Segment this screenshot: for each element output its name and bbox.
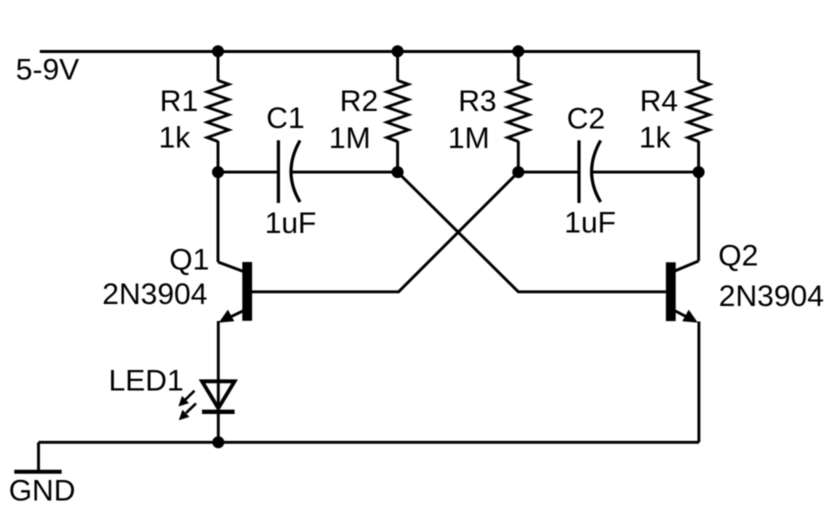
wire bottom ground rail xyxy=(39,441,700,444)
wire node A to Q1 collector xyxy=(217,172,220,262)
capacitor C1 xyxy=(278,140,300,203)
wire node A to C1 xyxy=(218,171,278,174)
svg-text:5-9V: 5-9V xyxy=(16,53,79,86)
svg-text:LED1: LED1 xyxy=(109,364,184,397)
transistor Q2 xyxy=(666,261,699,323)
junction LED1 to bottom rail xyxy=(212,436,224,448)
resistor R4 xyxy=(688,81,710,173)
ground xyxy=(14,442,61,471)
wire Q2 emitter to bottom rail xyxy=(697,322,700,443)
resistor R2 xyxy=(387,51,409,172)
resistor R3 xyxy=(507,51,529,172)
svg-text:R3: R3 xyxy=(458,85,496,118)
wire C1 to node B xyxy=(292,171,398,174)
node B R2 bottom xyxy=(392,166,404,178)
junction rail-R1 xyxy=(212,45,224,57)
LED LED1 xyxy=(178,381,234,420)
transistor Q1 xyxy=(218,262,252,323)
svg-text:C2: C2 xyxy=(567,103,605,136)
node A Q1 collector xyxy=(212,166,224,178)
wire node C to C2 xyxy=(518,171,579,174)
svg-text:1M: 1M xyxy=(329,122,371,155)
resistor R1 xyxy=(207,51,229,172)
wire Q1 emitter to bottom rail (through LED) xyxy=(217,321,220,442)
svg-text:1uF: 1uF xyxy=(564,207,616,240)
svg-text:1k: 1k xyxy=(639,121,672,154)
wire C2 to node D xyxy=(592,171,699,174)
svg-text:GND: GND xyxy=(9,474,76,507)
junction rail-R3 xyxy=(512,45,524,57)
node C R3 bottom xyxy=(512,166,524,178)
wire node B to Q2 base (cross coupling) xyxy=(398,172,666,292)
svg-text:R4: R4 xyxy=(640,85,678,118)
junction rail-R2 xyxy=(392,45,404,57)
svg-text:R2: R2 xyxy=(340,85,378,118)
svg-text:1k: 1k xyxy=(159,122,192,155)
node D Q2 collector xyxy=(693,166,705,178)
svg-text:2N3904: 2N3904 xyxy=(102,278,207,311)
wire node C to Q1 base (cross coupling) xyxy=(252,172,519,292)
svg-text:1M: 1M xyxy=(448,122,490,155)
svg-text:C1: C1 xyxy=(266,102,304,135)
wire top power rail xyxy=(40,52,699,81)
svg-text:R1: R1 xyxy=(160,85,198,118)
svg-text:2N3904: 2N3904 xyxy=(719,280,824,313)
svg-text:1uF: 1uF xyxy=(265,207,317,240)
svg-text:Q2: Q2 xyxy=(718,240,758,273)
svg-text:Q1: Q1 xyxy=(169,243,209,276)
capacitor C2 xyxy=(579,140,601,203)
wire node D to Q2 collector xyxy=(697,172,700,261)
